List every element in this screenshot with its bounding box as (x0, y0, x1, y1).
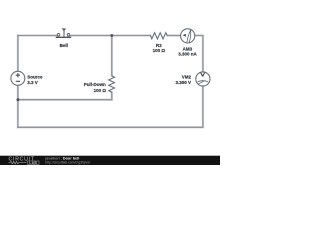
svg-text:Bell: Bell (60, 43, 68, 48)
svg-text:100 Ω: 100 Ω (94, 88, 107, 93)
svg-text:3.300 V: 3.300 V (175, 80, 191, 85)
svg-text:Source: Source (27, 74, 43, 79)
svg-text:VM2: VM2 (182, 74, 192, 79)
svg-text:http://circuitlab.com/c/g3hpvs: http://circuitlab.com/c/g3hpvs/ (45, 160, 90, 164)
svg-text:3.300 nA: 3.300 nA (178, 51, 197, 56)
svg-text:Pull-Down: Pull-Down (84, 82, 106, 87)
svg-text:LAB: LAB (29, 161, 37, 165)
svg-text:100 Ω: 100 Ω (153, 48, 166, 53)
svg-text:3.3 V: 3.3 V (27, 80, 38, 85)
svg-text:R3: R3 (156, 43, 162, 48)
